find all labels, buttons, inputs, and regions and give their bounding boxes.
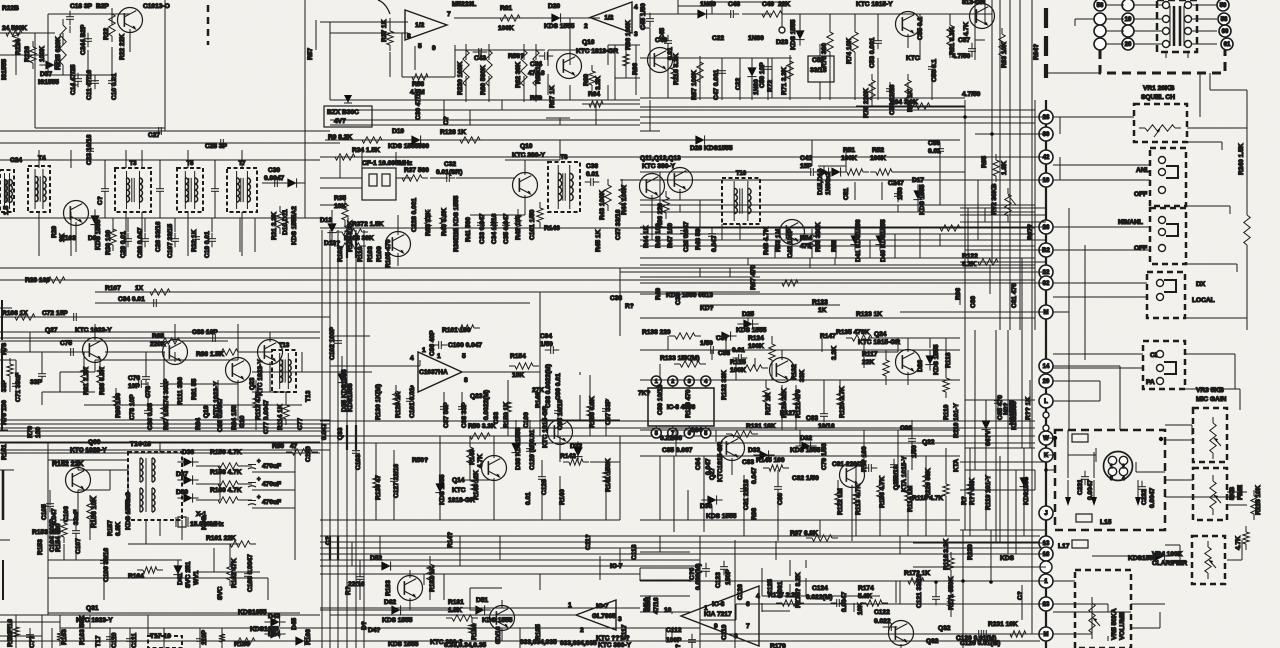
- svg-text:33/16: 33/16: [810, 67, 827, 74]
- svg-text:CF-1 10.695MHz: CF-1 10.695MHz: [362, 160, 413, 167]
- svg-text:C36: C36: [586, 163, 598, 170]
- svg-text:R109: R109: [376, 246, 383, 262]
- svg-text:1N60x2: 1N60x2: [825, 172, 832, 195]
- svg-text:7: 7: [746, 623, 750, 630]
- svg-text:C53 0.001: C53 0.001: [869, 37, 876, 68]
- svg-text:ANL: ANL: [1136, 167, 1150, 174]
- svg-text:PA: PA: [1146, 379, 1155, 386]
- svg-text:0.33,0.34,0.35: 0.33,0.34,0.35: [444, 642, 486, 648]
- svg-text:0.047: 0.047: [321, 423, 328, 440]
- svg-text:33uF: 33uF: [73, 510, 80, 525]
- svg-text:0.0047: 0.0047: [1149, 487, 1156, 508]
- svg-text:14: 14: [1043, 364, 1050, 370]
- svg-text:560: 560: [418, 143, 429, 150]
- svg-text:R90 100: R90 100: [115, 393, 122, 418]
- svg-text:0.047: 0.047: [705, 458, 712, 475]
- svg-text:033,034,035: 033,034,035: [560, 640, 597, 647]
- svg-text:D/16: D/16: [643, 598, 650, 612]
- svg-text:R84?: R84?: [1033, 44, 1040, 60]
- svg-text:D40 KDS1555: D40 KDS1555: [880, 219, 887, 262]
- svg-text:L15: L15: [1100, 519, 1112, 526]
- svg-text:R154: R154: [510, 353, 526, 360]
- svg-text:D19: D19: [392, 128, 404, 135]
- svg-text:Q27: Q27: [45, 327, 58, 334]
- svg-text:30: 30: [1043, 132, 1050, 138]
- svg-text:KTC1815-GR: KTC1815-GR: [717, 441, 724, 482]
- svg-text:Q11,Q12,Q13: Q11,Q12,Q13: [640, 155, 681, 162]
- svg-text:3: 3: [634, 31, 638, 38]
- svg-text:VR1 20KB: VR1 20KB: [1143, 85, 1175, 92]
- svg-text:0.0047: 0.0047: [264, 175, 285, 182]
- svg-text:1K: 1K: [818, 307, 827, 314]
- svg-text:C100: C100: [523, 412, 530, 428]
- svg-text:KTA: KTA: [953, 459, 960, 472]
- svg-text:D23: D23: [776, 39, 788, 46]
- svg-text:KDS 1555: KDS 1555: [388, 143, 419, 150]
- svg-text:24 560K: 24 560K: [2, 25, 27, 32]
- svg-text:D32: D32: [800, 435, 812, 442]
- svg-text:C7?: C7?: [29, 636, 36, 648]
- svg-text:VOLUME: VOLUME: [1119, 611, 1126, 640]
- svg-text:R230: R230: [967, 544, 974, 560]
- svg-text:R52: R52: [872, 147, 884, 154]
- svg-text:C37 33/16: C37 33/16: [615, 209, 622, 240]
- svg-text:R81 2.2K: R81 2.2K: [83, 367, 90, 395]
- svg-text:R226: R226: [24, 46, 31, 62]
- svg-text:R132: R132: [791, 364, 798, 380]
- svg-text:R?: R?: [345, 586, 352, 595]
- svg-text:R181: R181: [448, 599, 464, 606]
- svg-text:C?: C?: [1017, 591, 1024, 600]
- svg-text:KTC 1815-GR: KTC 1815-GR: [542, 406, 549, 448]
- svg-text:R22B: R22B: [2, 5, 19, 12]
- svg-text:1X: 1X: [135, 285, 144, 292]
- svg-text:M: M: [1044, 310, 1049, 316]
- svg-text:R83 10K: R83 10K: [1001, 42, 1008, 68]
- svg-text:KDS 1555: KDS 1555: [95, 219, 102, 250]
- svg-text:R51: R51: [843, 147, 855, 154]
- svg-text:R115 4.7K: R115 4.7K: [912, 495, 943, 502]
- svg-text:100: 100: [35, 427, 42, 438]
- svg-text:R16?: R16?: [7, 631, 14, 647]
- svg-text:R161 22K: R161 22K: [206, 535, 236, 542]
- svg-text:R48 4.7K: R48 4.7K: [763, 227, 770, 255]
- svg-text:1: 1: [437, 353, 441, 360]
- svg-text:Q23: Q23: [470, 393, 483, 400]
- svg-text:0.0047: 0.0047: [1087, 479, 1094, 500]
- svg-text:R105 470: R105 470: [385, 239, 392, 268]
- svg-text:R60 560K: R60 560K: [480, 65, 487, 95]
- svg-text:C20 0.047: C20 0.047: [683, 221, 690, 252]
- svg-text:26: 26: [1043, 225, 1050, 231]
- svg-text:58: 58: [1221, 17, 1228, 23]
- svg-text:R138 220: R138 220: [642, 329, 671, 336]
- svg-text:R9 8.2K: R9 8.2K: [328, 134, 352, 141]
- svg-text:R72: R72: [767, 80, 774, 92]
- svg-text:R162 47K: R162 47K: [231, 558, 238, 588]
- svg-text:R164: R164: [128, 573, 144, 580]
- svg-text:Q23: Q23: [249, 377, 256, 390]
- svg-text:1.8K: 1.8K: [1001, 161, 1008, 175]
- svg-text:NB/ANL: NB/ANL: [1118, 219, 1143, 226]
- svg-text:R88 6.8K: R88 6.8K: [99, 367, 106, 395]
- svg-text:R45 1K: R45 1K: [595, 229, 602, 252]
- svg-text:C126: C126: [737, 584, 744, 600]
- svg-text:R106 1X: R106 1X: [2, 310, 28, 317]
- svg-text:R98: R98: [751, 508, 758, 520]
- svg-text:R31 3.3K: R31 3.3K: [271, 212, 278, 240]
- svg-text:C122: C122: [874, 609, 890, 616]
- svg-text:C197 33/15: C197 33/15: [167, 224, 174, 258]
- svg-text:10: 10: [664, 607, 672, 614]
- svg-text:D20: D20: [548, 3, 560, 10]
- svg-text:IC-7: IC-7: [610, 563, 623, 570]
- svg-text:OFF: OFF: [1134, 245, 1147, 252]
- svg-text:D62: D62: [384, 599, 396, 606]
- svg-text:SVC: SVC: [217, 586, 224, 600]
- svg-text:VR4 100K: VR4 100K: [1152, 551, 1183, 558]
- svg-text:33P: 33P: [30, 379, 42, 386]
- svg-text:IS1555: IS1555: [1, 59, 8, 80]
- svg-text:KDS 1555: KDS 1555: [736, 327, 767, 334]
- svg-text:KDS1655: KDS1655: [250, 626, 279, 633]
- svg-text:R128 1K: R128 1K: [440, 129, 466, 136]
- svg-text:8: 8: [407, 33, 411, 40]
- svg-text:813-GR: 813-GR: [962, 0, 985, 6]
- svg-text:C30: C30: [268, 167, 280, 174]
- svg-text:R81 55: R81 55: [191, 378, 198, 400]
- svg-text:L17: L17: [1058, 543, 1070, 550]
- svg-text:SVC 251: SVC 251: [185, 561, 192, 588]
- svg-text:C79 1/50: C79 1/50: [821, 443, 828, 470]
- svg-text:9: 9: [714, 623, 718, 630]
- svg-text:4.7K: 4.7K: [477, 454, 484, 468]
- svg-text:R127: R127: [780, 410, 796, 417]
- svg-text:D39: D39: [176, 489, 188, 496]
- svg-text:C59: C59: [928, 140, 940, 147]
- svg-text:R151: R151: [1, 444, 8, 460]
- svg-text:C42 100P: C42 100P: [787, 228, 794, 258]
- svg-text:29: 29: [1043, 379, 1050, 385]
- svg-text:KTC 1923-Y: KTC 1923-Y: [257, 359, 264, 396]
- svg-text:R50?: R50?: [412, 457, 428, 464]
- svg-text:R230 100K: R230 100K: [457, 61, 464, 95]
- svg-text:5: 5: [462, 353, 466, 360]
- svg-text:KDS 1555: KDS 1555: [482, 617, 513, 624]
- svg-text:R66: R66: [632, 63, 639, 75]
- svg-text:R103: R103: [367, 246, 374, 262]
- svg-text:R119: R119: [943, 404, 950, 420]
- svg-text:R?? 1K: R?? 1K: [1025, 397, 1032, 420]
- svg-text:MIC GAIN: MIC GAIN: [1196, 396, 1227, 403]
- svg-text:C124: C124: [812, 585, 828, 592]
- svg-text:C64: C64: [695, 458, 702, 470]
- svg-text:R?: R?: [625, 303, 634, 310]
- svg-text:C63: C63: [806, 415, 818, 422]
- svg-text:8: 8: [655, 431, 658, 437]
- svg-text:KTC 1815-Y: KTC 1815-Y: [856, 1, 893, 8]
- svg-text:SQUEL CH: SQUEL CH: [1141, 94, 1175, 101]
- svg-text:61: 61: [1224, 42, 1231, 48]
- svg-text:3: 3: [1110, 476, 1113, 482]
- svg-text:C244 B2P: C244 B2P: [80, 24, 87, 55]
- svg-text:0.22/30: 0.22/30: [660, 435, 682, 442]
- svg-text:C82 1/50: C82 1/50: [792, 475, 819, 482]
- svg-text:R39 1K: R39 1K: [453, 229, 460, 252]
- svg-text:C11 47/16: C11 47/16: [86, 70, 93, 100]
- svg-text:D28 KDS1555: D28 KDS1555: [690, 145, 733, 152]
- svg-text:C100 0.047: C100 0.047: [448, 342, 482, 349]
- svg-text:R80: R80: [272, 443, 284, 450]
- svg-text:R71 3.3K: R71 3.3K: [781, 67, 788, 95]
- svg-text:R160 4.7K: R160 4.7K: [210, 487, 242, 494]
- svg-text:R156 10K: R156 10K: [91, 496, 98, 528]
- svg-text:10K: 10K: [857, 603, 864, 615]
- svg-text:R178? 8.2K: R178? 8.2K: [795, 572, 802, 608]
- svg-text:KTC 1923-Y: KTC 1923-Y: [75, 327, 112, 334]
- svg-text:0.01: 0.01: [525, 492, 532, 505]
- svg-text:N03I555: N03I555: [1009, 400, 1016, 425]
- svg-text:C1913-O: C1913-O: [143, 3, 170, 10]
- svg-text:2: 2: [580, 627, 584, 634]
- svg-text:19: 19: [1043, 178, 1050, 184]
- svg-text:K: K: [1044, 453, 1049, 459]
- svg-text:C41: C41: [800, 155, 812, 162]
- svg-text:KDS: KDS: [201, 515, 208, 530]
- svg-text:KDS 1555 0513: KDS 1555 0513: [666, 292, 713, 299]
- svg-text:+: +: [257, 459, 261, 465]
- svg-text:4: 4: [410, 355, 414, 362]
- svg-text:KD?: KD?: [700, 305, 714, 312]
- svg-text:R41 560: R41 560: [465, 217, 472, 242]
- svg-text:C121 33/16: C121 33/16: [916, 574, 923, 608]
- svg-text:KTC 380-Y: KTC 380-Y: [642, 163, 676, 170]
- svg-text:T17: T17: [95, 635, 102, 647]
- svg-text:T3: T3: [129, 161, 137, 167]
- svg-text:32: 32: [1043, 281, 1050, 287]
- svg-text:R48 58: R48 58: [695, 228, 702, 250]
- svg-text:4: 4: [1122, 476, 1125, 482]
- svg-text:470uF: 470uF: [262, 499, 281, 506]
- svg-text:G10: G10: [239, 415, 246, 428]
- svg-text:42: 42: [1043, 155, 1050, 161]
- svg-text:1: 1: [704, 605, 708, 612]
- svg-text:0D/16: 0D/16: [495, 626, 502, 644]
- svg-text:KTC 380-Y: KTC 380-Y: [512, 152, 546, 159]
- svg-text:+: +: [257, 477, 261, 483]
- svg-text:R130 1K(M): R130 1K(M): [375, 384, 382, 420]
- svg-text:C47 0.001: C47 0.001: [713, 69, 720, 100]
- svg-text:B2: B2: [1042, 248, 1050, 254]
- svg-text:R64: R64: [588, 91, 600, 98]
- svg-text:CLARIFIER: CLARIFIER: [1152, 560, 1187, 567]
- svg-text:Q16: Q16: [582, 39, 595, 46]
- svg-text:R74 10K: R74 10K: [846, 38, 853, 64]
- svg-text:R32 1K: R32 1K: [191, 229, 198, 252]
- svg-text:0.001: 0.001: [777, 581, 784, 598]
- svg-text:20: 20: [1125, 42, 1132, 48]
- svg-text:9: 9: [432, 45, 436, 52]
- svg-text:C19 0.01: C19 0.01: [204, 231, 211, 258]
- svg-text:KDS 1555: KDS 1555: [919, 184, 926, 215]
- svg-text:R174: R174: [858, 585, 874, 592]
- svg-text:C85 0.007: C85 0.007: [662, 447, 693, 454]
- svg-text:R76 220K: R76 220K: [863, 88, 870, 118]
- svg-text:C28 3P: C28 3P: [205, 143, 228, 150]
- svg-text:C51: C51: [843, 188, 850, 200]
- svg-text:C180: C180: [305, 446, 312, 462]
- svg-text:R61: R61: [500, 5, 512, 12]
- svg-text:Q32: Q32: [938, 625, 951, 632]
- svg-text:19: 19: [1125, 17, 1132, 23]
- svg-text:C89 10/16: C89 10/16: [657, 384, 664, 415]
- svg-text:D51: D51: [476, 597, 488, 604]
- svg-text:C118: C118: [631, 544, 638, 560]
- svg-text:R240 1.5K: R240 1.5K: [1238, 143, 1245, 175]
- svg-text:KDS 1555: KDS 1555: [706, 513, 737, 520]
- svg-text:R79: R79: [27, 426, 34, 438]
- svg-text:W: W: [1043, 436, 1049, 442]
- svg-text:IC-8: IC-8: [712, 601, 725, 608]
- svg-text:KTC: KTC: [906, 55, 920, 62]
- svg-text:R146: R146: [544, 225, 560, 232]
- svg-text:LOCAL: LOCAL: [1192, 297, 1215, 304]
- svg-text:1818-GR: 1818-GR: [448, 497, 475, 504]
- svg-text:C14 47/25: C14 47/25: [70, 64, 77, 95]
- svg-text:C?: C?: [97, 196, 104, 205]
- svg-text:R85: R85: [152, 333, 164, 340]
- svg-text:C87: C87: [716, 335, 728, 342]
- svg-text:Q22: Q22: [922, 439, 935, 446]
- svg-text:R14?: R14?: [447, 532, 454, 548]
- svg-text:R122: R122: [962, 253, 978, 260]
- svg-text:R67 470: R67 470: [750, 265, 757, 290]
- svg-text:C96 40P: C96 40P: [429, 330, 436, 356]
- svg-text:R119 101-Y: R119 101-Y: [953, 403, 960, 438]
- svg-text:C111: C111: [131, 633, 138, 648]
- svg-text:C38: C38: [610, 295, 622, 302]
- svg-text:C84 0.01: C84 0.01: [118, 296, 145, 303]
- svg-text:KDS 1555: KDS 1555: [790, 19, 797, 50]
- svg-text:C90: C90: [900, 425, 912, 432]
- svg-text:R110: R110: [357, 246, 364, 262]
- svg-text:R163: R163: [61, 629, 68, 645]
- svg-text:470uF: 470uF: [262, 481, 281, 488]
- svg-text:R37 560: R37 560: [404, 167, 429, 174]
- svg-text:28: 28: [1043, 115, 1050, 121]
- svg-text:4: 4: [634, 4, 638, 11]
- svg-text:B2P: B2P: [96, 3, 109, 10]
- svg-text:D4?: D4?: [368, 627, 380, 634]
- svg-text:R67 1K: R67 1K: [549, 85, 556, 108]
- svg-text:R22: R22: [103, 28, 110, 40]
- svg-text:+: +: [257, 495, 261, 501]
- svg-text:C57: C57: [958, 37, 970, 44]
- svg-text:1N60: 1N60: [748, 35, 764, 42]
- svg-text:R107: R107: [105, 285, 121, 292]
- svg-text:KDS1555: KDS1555: [347, 383, 354, 412]
- svg-text:Q32: Q32: [926, 638, 939, 645]
- svg-text:C83: C83: [742, 459, 754, 466]
- svg-text:OFF: OFF: [1134, 191, 1147, 198]
- svg-text:R372 1.5K: R372 1.5K: [352, 221, 384, 228]
- svg-text:100K: 100K: [748, 343, 764, 350]
- svg-text:KDS 1555: KDS 1555: [933, 344, 940, 375]
- svg-text:C120 0.01(M): C120 0.01(M): [960, 640, 1000, 647]
- svg-text:C123: C123: [715, 572, 722, 588]
- svg-text:C11?: C11?: [585, 534, 592, 550]
- svg-text:4.7K: 4.7K: [1235, 536, 1242, 550]
- svg-text:47/16: 47/16: [653, 597, 660, 614]
- svg-text:R133 15K(M): R133 15K(M): [660, 355, 700, 362]
- svg-text:100K: 100K: [870, 155, 886, 162]
- svg-text:Q33: Q33: [337, 427, 344, 440]
- svg-text:16: 16: [1043, 552, 1050, 558]
- svg-text:59: 59: [1220, 3, 1227, 9]
- svg-text:470uF: 470uF: [262, 463, 281, 470]
- svg-text:7: 7: [447, 11, 451, 18]
- svg-text:T13: T13: [279, 343, 290, 349]
- svg-text:J: J: [1044, 511, 1047, 517]
- svg-text:C30 47/16: C30 47/16: [415, 89, 422, 120]
- svg-text:1: 1: [422, 347, 426, 354]
- svg-text:R225 620K: R225 620K: [55, 36, 62, 70]
- svg-text:5: 5: [418, 43, 422, 50]
- svg-text:2: 2: [1122, 464, 1125, 470]
- svg-text:KIA 7217: KIA 7217: [704, 611, 732, 618]
- svg-text:R59: R59: [530, 95, 542, 102]
- svg-text:3.3K: 3.3K: [595, 76, 602, 90]
- svg-text:R29: R29: [51, 226, 58, 238]
- svg-text:KDS 1555: KDS 1555: [388, 641, 419, 648]
- svg-text:C110: C110: [111, 632, 118, 648]
- svg-text:C26 33/16: C26 33/16: [155, 221, 162, 252]
- svg-text:100K: 100K: [39, 46, 46, 62]
- svg-text:5KB: 5KB: [1229, 487, 1236, 500]
- svg-text:0.0047: 0.0047: [841, 591, 848, 612]
- svg-text:R102: R102: [337, 246, 344, 262]
- svg-text:D33: D33: [748, 447, 760, 454]
- svg-text:R30 100: R30 100: [105, 230, 112, 255]
- svg-text:C44: C44: [530, 61, 542, 68]
- svg-text:1/50: 1/50: [700, 340, 713, 347]
- svg-text:R163 50K: R163 50K: [79, 615, 86, 645]
- svg-text:0.047: 0.047: [711, 235, 718, 252]
- svg-text:C33 0.047: C33 0.047: [479, 213, 486, 244]
- svg-text:C112: C112: [666, 627, 682, 634]
- svg-text:R111 330: R111 330: [177, 377, 184, 405]
- svg-text:C231: C231: [1077, 479, 1084, 495]
- svg-text:VR5 50KA: VR5 50KA: [1111, 608, 1118, 640]
- svg-text:4.7/50: 4.7/50: [952, 53, 971, 60]
- svg-text:KDS: KDS: [1000, 555, 1015, 562]
- svg-text:0.068(M): 0.068(M): [695, 564, 702, 590]
- svg-text:R140: R140: [559, 489, 566, 505]
- svg-text:R50 3.3K: R50 3.3K: [468, 423, 496, 430]
- svg-text:4: 4: [756, 593, 760, 600]
- svg-text:D41 KDS1556: D41 KDS1556: [855, 219, 862, 262]
- svg-text:R57: R57: [307, 48, 314, 60]
- svg-text:0.047: 0.047: [751, 467, 758, 484]
- svg-text:KDS 1555: KDS 1555: [382, 617, 413, 624]
- svg-text:C22: C22: [735, 78, 742, 90]
- svg-text:10K: 10K: [512, 372, 524, 379]
- svg-text:R34 1.5K: R34 1.5K: [352, 147, 380, 154]
- svg-text:R96: R96: [955, 288, 962, 300]
- svg-text:C93 0.0022(M): C93 0.0022(M): [545, 364, 552, 408]
- svg-text:D45: D45: [291, 618, 298, 630]
- svg-text:KTC 1813-GR: KTC 1813-GR: [576, 48, 618, 55]
